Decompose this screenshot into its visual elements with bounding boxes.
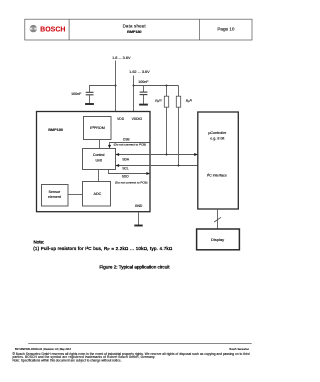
Bosch logo symbol <box>30 25 37 32</box>
svg-text:Control: Control <box>93 153 105 157</box>
wire Sensor element to ADC <box>68 194 83 196</box>
wire C2 top lead <box>143 86 145 93</box>
block Control Unit <box>83 149 116 170</box>
arrow SDA into Control Unit <box>116 153 120 156</box>
svg-text:SDA: SDA <box>122 157 129 161</box>
wire SCL <box>116 165 198 167</box>
block E2PROM <box>84 117 112 140</box>
IC U1 BMP180 outline <box>37 112 151 212</box>
svg-text:1.8 ... 3.6V: 1.8 ... 3.6V <box>112 56 131 60</box>
ground GND pin <box>134 225 142 227</box>
junction dot Rp1 on SDA <box>166 154 168 156</box>
svg-text:VDD: VDD <box>117 117 125 121</box>
svg-text:100nF: 100nF <box>71 92 82 96</box>
junction dot VDD branch <box>115 85 117 87</box>
svg-text:BOSCH: BOSCH <box>40 26 65 33</box>
arrow SDO to pin <box>146 172 150 175</box>
svg-text:Note:: Note: <box>34 240 45 245</box>
wire VDDIO rail <box>134 85 179 87</box>
svg-text:SDO: SDO <box>122 175 129 179</box>
resistor Rp1 <box>164 86 168 155</box>
svg-text:CSB: CSB <box>123 138 130 142</box>
svg-text:(Do not connect to PCB): (Do not connect to PCB) <box>115 180 148 184</box>
wire E2PROM to Control Unit <box>99 140 101 149</box>
svg-text:e.g. 8 bit: e.g. 8 bit <box>210 136 224 140</box>
svg-text:(Do not connect to PCB): (Do not connect to PCB) <box>114 142 147 146</box>
capacitor C1 100nF <box>86 92 94 95</box>
arrow SDA into uController <box>194 153 198 156</box>
ground C2 <box>139 104 148 106</box>
wire SDA <box>116 154 198 156</box>
svg-text:I²C interface: I²C interface <box>207 173 227 177</box>
svg-text:Sensor: Sensor <box>49 190 61 194</box>
svg-text:Unit: Unit <box>95 159 101 163</box>
svg-text:element: element <box>48 195 61 199</box>
svg-text:SCL: SCL <box>122 167 128 171</box>
arrow CSB into Control Unit <box>108 145 111 149</box>
wire VDD vertical <box>115 61 117 112</box>
header table frame <box>25 19 252 40</box>
svg-text:Page 10: Page 10 <box>217 27 235 32</box>
svg-text:Bosch Sensortec: Bosch Sensortec <box>229 347 249 351</box>
svg-text:Display: Display <box>211 237 224 242</box>
wire VDDIO vertical <box>133 76 135 112</box>
uController U2 outline <box>198 112 239 209</box>
svg-text:VDDIO: VDDIO <box>132 117 143 121</box>
junction dot Rp2 on SCL <box>178 165 180 167</box>
junction dot VDDIO rail <box>133 85 135 87</box>
svg-text:ADC: ADC <box>94 192 102 196</box>
svg-text:Data sheet: Data sheet <box>123 23 147 28</box>
ground C1 <box>85 103 94 105</box>
block Display <box>197 229 240 250</box>
arrow SCL into Control Unit <box>116 164 120 167</box>
svg-text:1.62 ... 3.6V: 1.62 ... 3.6V <box>129 70 150 74</box>
svg-text:E²PROM: E²PROM <box>90 126 105 130</box>
bus slash <box>214 217 221 222</box>
svg-text:BMP180: BMP180 <box>127 29 141 34</box>
wire C1 to ground <box>89 95 91 104</box>
svg-text:Note: Specifications within th: Note: Specifications within this documen… <box>13 358 122 362</box>
wire GND <box>138 212 140 225</box>
wire Control Unit to ADC <box>98 170 100 182</box>
svg-text:100nF: 100nF <box>138 80 149 84</box>
wire VDD branch to C1 <box>90 86 116 93</box>
svg-text:Figure 2: Typical application: Figure 2: Typical application circuit <box>99 265 170 270</box>
svg-text:µController: µController <box>208 131 227 135</box>
svg-text:GND: GND <box>135 204 143 208</box>
wire CSB <box>110 143 150 147</box>
svg-text:BST-BMP180-DS000-02 | Revision: BST-BMP180-DS000-02 | Revision 1.8 | May… <box>15 348 72 351</box>
wire C2 to ground <box>143 95 145 104</box>
svg-text:BMP180: BMP180 <box>48 128 63 132</box>
block ADC <box>83 182 111 207</box>
resistor Rp2 <box>176 86 180 166</box>
block Sensor element <box>42 185 69 207</box>
junction dot Rp1 top <box>166 85 168 87</box>
wire SDO <box>109 170 148 174</box>
footer rule <box>28 342 252 344</box>
wire uController to Display bus <box>217 209 219 229</box>
capacitor C2 100nF <box>140 92 148 95</box>
